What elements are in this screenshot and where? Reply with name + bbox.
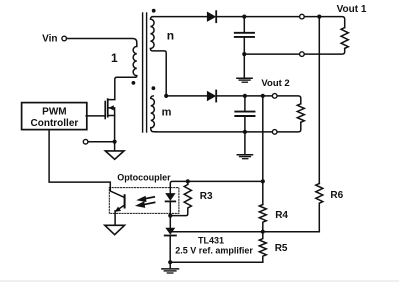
ground output1	[237, 77, 252, 79]
transformer secondary winding m	[151, 96, 156, 132]
terminal source rail	[83, 139, 88, 144]
svg-text:R4: R4	[275, 210, 288, 221]
svg-text:TL431: TL431	[198, 236, 224, 246]
LED D3 (optocoupler diode)	[165, 193, 175, 201]
wire LED cathode down	[169, 201, 171, 227]
load resistor output1	[341, 28, 348, 49]
transformer secondary winding n	[150, 17, 166, 96]
terminal Vout2 +	[272, 94, 277, 99]
node source junction	[113, 140, 117, 144]
resistor R5	[259, 232, 266, 263]
ground optocoupler (triangle)	[105, 225, 125, 234]
svg-text:Vin: Vin	[42, 34, 57, 45]
node LED rail / sense	[261, 179, 265, 183]
diode D1	[207, 12, 216, 22]
wire divider junction to R6	[263, 231, 320, 233]
wire PWM feedback to optocoupler collector	[49, 130, 124, 197]
diode D2	[207, 91, 216, 101]
wire Vout1 sense line	[318, 17, 320, 184]
wire source rail to terminal	[88, 141, 115, 143]
MOSFET Q1 channel bar	[107, 99, 109, 116]
capacitor C1	[243, 17, 245, 32]
wire LED anode rail to Vout2 sense	[170, 181, 262, 193]
PWM controller U1	[22, 103, 87, 130]
wire cap2 bottom to ground	[244, 132, 246, 154]
TL431 U2	[165, 228, 175, 235]
phase dot primary	[132, 81, 136, 85]
wire primary bottom to MOSFET drain	[108, 76, 137, 100]
node cap2 top	[243, 94, 247, 98]
phase dot secondary m	[152, 86, 156, 90]
svg-text:Optocoupler: Optocoupler	[117, 173, 171, 183]
node Vout1 sense tap	[317, 15, 321, 19]
wire secondary rail 2 (diode anode)	[166, 95, 207, 97]
svg-text:R3: R3	[200, 191, 213, 202]
phase dot secondary n	[152, 9, 156, 13]
optocoupler phototransistor base bar	[124, 195, 126, 207]
wire Vout1 top rail	[216, 17, 345, 28]
wire gate from PWM	[86, 115, 105, 117]
ground output2	[237, 154, 252, 156]
optocoupler light arrow lower	[145, 202, 155, 204]
load resistor output2	[297, 104, 304, 123]
ground TL431	[169, 262, 171, 268]
node R4/R5/R6 junction	[261, 230, 265, 234]
svg-text:R5: R5	[275, 243, 288, 254]
node cap2 bottom	[243, 130, 247, 134]
svg-text:PWM: PWM	[42, 106, 66, 117]
wire secondary rail 1 (diode anode)	[152, 16, 207, 18]
MOSFET Q1 source stub	[108, 116, 115, 142]
node TL431 anode / ground	[168, 260, 172, 264]
terminal Vout1 +	[300, 14, 305, 19]
wire Vout2 bottom rail	[156, 122, 301, 132]
resistor R6	[316, 184, 323, 232]
svg-text:R6: R6	[330, 190, 343, 201]
MOSFET Q1 gate bar	[104, 102, 106, 119]
terminal Vout1 -	[300, 52, 305, 57]
resistor R4	[259, 205, 266, 232]
optocoupler phototransistor emitter	[117, 205, 124, 210]
wire Vout2 sense line	[262, 96, 264, 205]
optocoupler dashed box	[109, 188, 179, 214]
svg-text:1: 1	[111, 51, 118, 65]
node cap1 top	[242, 15, 246, 19]
transformer T1 primary winding 1	[133, 46, 137, 75]
node Vout2 sense tap	[261, 94, 265, 98]
node R3 top	[186, 179, 190, 183]
svg-text:m: m	[162, 107, 172, 119]
svg-text:Vout 1: Vout 1	[337, 4, 367, 15]
wire source to ground	[114, 142, 116, 151]
transformer core	[142, 13, 144, 132]
terminal Vin	[62, 36, 67, 41]
resistor R3	[170, 181, 191, 215]
svg-text:Controller: Controller	[31, 118, 79, 129]
terminal Vout2 -	[272, 130, 277, 135]
optocoupler light arrow upper	[146, 197, 155, 199]
faint bottom rule	[0, 280, 399, 282]
MOSFET Q1 body arrow	[109, 108, 115, 116]
node LED cathode / R3 bottom	[168, 214, 172, 218]
capacitor C2	[244, 96, 246, 111]
wire Vin to transformer primary	[67, 39, 137, 47]
node center tap	[164, 94, 168, 98]
svg-text:Vout 2: Vout 2	[261, 78, 289, 89]
wire emitter to ground	[114, 211, 116, 225]
wire Vout1 bottom rail	[244, 48, 344, 54]
wire ground rail R5	[170, 261, 263, 263]
wire Vout2 top rail	[216, 96, 301, 104]
wire cap1 bottom to ground	[243, 54, 245, 78]
svg-text:n: n	[167, 29, 174, 43]
wire TL431 ref to divider	[172, 231, 263, 233]
svg-text:2.5 V ref. amplifier: 2.5 V ref. amplifier	[175, 246, 253, 256]
node cap1 bottom	[242, 52, 246, 56]
ground primary (triangle)	[105, 151, 124, 159]
